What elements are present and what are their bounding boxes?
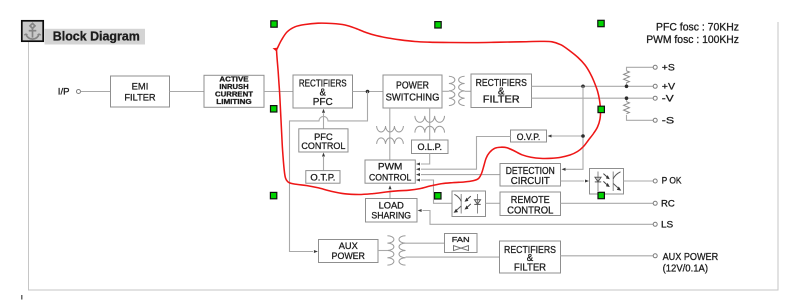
block EMI FILTER [111,76,170,107]
wire resistor to +V [626,83,628,87]
block LOAD SHARING [366,199,418,223]
junction +V/OVP tap [581,85,585,89]
arrow pin2 into PWM [416,168,420,171]
terminal RC [653,201,657,205]
svg-text:POWER: POWER [396,81,429,92]
svg-text:AUX POWER: AUX POWER [663,252,719,263]
wire PWM to load sharing [389,191,391,199]
svg-text:CONTROL: CONTROL [507,206,554,217]
wire -V to resistor [626,98,628,102]
svg-text:PFC fosc : 70KHz: PFC fosc : 70KHz [656,21,739,33]
block O.T.P. [306,171,340,184]
wire +V tap down to detection [565,86,583,169]
label -S [662,115,674,126]
svg-text:CONTROL: CONTROL [369,172,411,183]
transformer T1 (main) [442,76,471,105]
svg-text:LOAD: LOAD [379,201,405,211]
terminal -V [653,96,657,100]
wire T2 to aux rectifiers [406,256,500,258]
label P OK [662,175,683,186]
svg-text:ACTIVE: ACTIVE [219,77,249,84]
terminal I/P [77,90,81,94]
resistor +S sense [624,71,630,85]
arrow into AUX POWER [314,250,318,253]
wire aux power out [561,255,654,257]
terminal AUX POWER [653,254,657,258]
block ACTIVE INRUSH CURRENT LIMITING [204,75,264,107]
svg-text:+S: +S [662,62,675,73]
arrow OTP into PFC control [322,153,325,157]
svg-text:RC: RC [661,198,675,209]
title bar [45,29,146,45]
selection handle top-mid [435,22,441,28]
label -V [662,93,675,104]
svg-text:LS: LS [661,219,673,230]
wire detection to PWM pin3 [421,174,500,176]
block POWER SWITCHING [383,75,442,108]
wire detection to opto U1 [561,180,585,182]
label +S [662,62,675,73]
svg-text:Block Diagram: Block Diagram [53,29,140,44]
wire EMI FILTER to inrush limiter [170,91,205,93]
block RECTIFIERS &amp; PFC [293,75,353,108]
junction OVP tap [581,134,585,138]
svg-text:CIRCUIT: CIRCUIT [511,176,550,187]
block REMOTE CONTROL [500,192,561,217]
svg-text:CONTROL: CONTROL [301,141,346,152]
selection handle top-right [598,20,604,26]
svg-text:O.L.P.: O.L.P. [418,142,443,152]
block AUX POWER [319,240,379,263]
wire tap to OVP [551,135,583,137]
selection handle mid-right [598,106,604,112]
svg-text:FILTER: FILTER [483,95,520,106]
selection handle bottom-right [598,192,604,198]
block O.L.P. [412,140,449,154]
svg-text:O.V.P.: O.V.P. [517,132,541,142]
wire +S sense [627,67,654,71]
opto-coupler U1 (P OK) [590,169,624,195]
block PWM CONTROL [365,160,415,183]
title text Block Diagram [53,29,140,44]
arrow load sharing into PWM [388,185,391,189]
wire LS [423,211,654,225]
junction node PFC bus [366,90,370,94]
wire PS right leg [429,108,431,140]
current transformer CT1 [377,126,404,144]
junction -V/-S [625,96,629,100]
svg-text:FILTER: FILTER [514,262,546,273]
svg-text:POWER: POWER [332,250,366,261]
svg-text:O.T.P.: O.T.P. [310,172,335,182]
label PWM fosc [646,34,739,46]
svg-text:P OK: P OK [662,175,683,186]
svg-text:PFC: PFC [313,97,333,108]
block RECTIFIERS &amp; FILTER (aux) [500,241,561,273]
svg-text:SWITCHING: SWITCHING [386,92,440,103]
label AUX POWER [663,252,719,263]
wire remote control to RC [561,202,654,204]
svg-text:CURRENT: CURRENT [215,92,254,99]
wire aux to T2 [378,250,387,252]
wire inrush limiter to rectifiers-PFC [264,91,293,93]
resistor -S sense [624,102,630,114]
label 12V/0.1A [663,263,708,274]
wire -V rail [532,97,654,99]
arrow LS into load sharing [418,209,422,212]
label LS [661,219,673,230]
transformer T2 (aux) [387,236,405,265]
wire OTP to PFC control [323,157,325,171]
arrow into opto U1 [585,179,589,182]
block FAN [445,234,478,253]
terminal -S [653,118,657,122]
wire -S sense [627,115,654,120]
wire feedback with hop [290,92,368,252]
arrow pin3 into PWM [416,173,420,176]
selection handle top-left [271,21,277,27]
svg-text:+V: +V [662,81,676,92]
wire I/P to EMI FILTER [81,91,111,93]
arrow pin1 into PWM [416,162,420,165]
wire PS left leg [389,108,391,160]
opto-coupler U2 (remote) [452,191,486,217]
svg-text:INRUSH: INRUSH [219,84,248,91]
terminal +V [653,84,657,88]
svg-text:EMI: EMI [132,82,149,93]
block RECTIFIERS &amp; FILTER [471,74,532,108]
arrow pin4 into PWM [416,178,420,181]
wire OLP to PWM pin1 [421,154,430,165]
svg-text:PWM fosc : 100KHz: PWM fosc : 100KHz [646,34,739,46]
wire rectifiers-PFC to power switching [353,91,384,93]
label RC [661,198,675,209]
svg-text:I/P: I/P [58,86,70,97]
anchor icon [22,21,43,41]
arrow into detection circuit [562,168,566,171]
block DETECTION CIRCUIT [500,164,561,187]
arrow into OVP [548,134,552,137]
svg-text:FAN: FAN [452,235,470,244]
svg-text:-V: -V [662,93,675,104]
wire +V rail [532,85,654,87]
wire opto U2 to remote control [486,202,501,204]
current transformer CT2 [415,116,445,133]
block PFC CONTROL [299,129,348,152]
selection handle bottom-left [270,192,276,198]
wire OVP loop to PWM pin2 [421,137,511,170]
label PFC fosc [656,21,739,33]
selection handle bottom-mid [435,193,441,199]
svg-text:LIMITING: LIMITING [216,99,252,106]
red freehand annotation loop [273,23,601,194]
terminal LS [653,222,657,226]
svg-text:FILTER: FILTER [124,93,155,104]
svg-text:-S: -S [662,115,674,126]
label I/P [58,86,70,97]
block O.V.P. [511,130,547,142]
svg-text:SHARING: SHARING [371,211,411,221]
svg-text:(12V/0.1A): (12V/0.1A) [663,263,708,274]
selection handle mid-left [271,106,277,112]
wire opto U1 to P OK [624,180,654,182]
arrow PFC drive into rectifiers-PFC [322,109,325,113]
wire RC opto to PWM pin4 [421,180,452,203]
page mark bottom-left [21,295,23,300]
terminal P OK [653,179,657,183]
wire PFC drive [323,113,325,129]
junction +V/+S [625,85,629,89]
svg-text:PWM: PWM [378,161,402,172]
terminal +S [653,65,657,69]
wire T2 to FAN [406,242,445,244]
label +V [662,81,676,92]
